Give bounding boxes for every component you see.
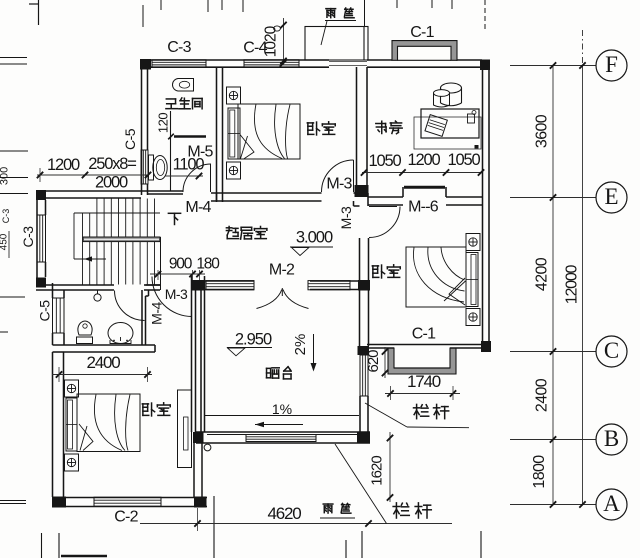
room label 晒台 — [267, 368, 280, 378]
svg-text:C-5: C-5 — [122, 128, 138, 150]
svg-text:B: B — [604, 426, 619, 451]
door M-3 top bedroom — [353, 160, 355, 192]
study desk outer zone — [414, 117, 481, 149]
E wall below study — [368, 196, 403, 198]
stair right edge — [160, 237, 162, 290]
svg-text:M-4: M-4 — [185, 199, 211, 216]
wire stub x397 — [396, 0, 398, 8]
room label 起居室 — [226, 226, 238, 238]
svg-text:180: 180 — [196, 256, 220, 273]
svg-text:1%: 1% — [272, 401, 292, 417]
svg-text:1050: 1050 — [448, 151, 481, 169]
grid line B — [510, 439, 596, 441]
wire stub x222 — [221, 0, 223, 10]
wire stub x364 — [364, 0, 366, 26]
svg-text:1740: 1740 — [407, 372, 441, 391]
column M-2 west — [191, 280, 205, 291]
grid line E — [510, 197, 596, 199]
wire stub top-left vertical — [38, 0, 40, 25]
balcony west wall — [191, 276, 193, 432]
bedroom left wall (lower-left) — [52, 352, 54, 497]
svg-text:A: A — [603, 491, 620, 516]
dim 4620 — [140, 523, 452, 525]
balcony south railing window — [246, 435, 316, 442]
door M-6 leaf — [404, 186, 445, 189]
column balcony SE — [357, 432, 370, 444]
door M-5 — [210, 164, 212, 192]
svg-text:620: 620 — [365, 350, 382, 373]
hall west wall top piece — [146, 284, 161, 286]
headboard — [466, 253, 478, 307]
canopy 雨篷 outline — [305, 27, 368, 61]
svg-text:450: 450 — [0, 233, 10, 250]
svg-text:250x8=: 250x8= — [88, 155, 136, 173]
nightstand 2 — [466, 309, 480, 326]
column bottom-left — [52, 497, 66, 508]
wash basin upper bath — [172, 79, 193, 92]
bottom wall A — [52, 497, 207, 499]
svg-text:1050: 1050 — [369, 152, 402, 170]
dimension 1020 vertical — [283, 18, 285, 62]
wire stub x452 — [451, 0, 453, 9]
bay window C-1 bottom — [388, 348, 456, 374]
column bottom-right (balcony W) — [194, 497, 207, 508]
svg-text:C-4: C-4 — [243, 40, 267, 57]
bed top bedroom: nightstand 1 — [227, 87, 241, 104]
room label 卧室 top — [307, 122, 319, 135]
window C-5 lower — [53, 298, 65, 333]
toilet upper bath — [153, 156, 167, 180]
right exterior wall — [482, 67, 484, 341]
bay window C-1 top — [392, 41, 457, 61]
window left of M-2 — [206, 281, 254, 290]
stair handrail — [83, 237, 160, 242]
svg-text:1620: 1620 — [368, 456, 385, 486]
window C-3 top — [152, 60, 206, 68]
svg-text:C-3: C-3 — [167, 39, 191, 56]
shower head lower bath — [94, 294, 101, 301]
svg-text:C-1: C-1 — [412, 326, 436, 343]
grid bubble E — [596, 182, 627, 213]
top exterior wall band — [141, 59, 329, 61]
dim 2400 lower-left — [52, 374, 152, 376]
drain circle — [204, 444, 211, 451]
svg-text:M-3: M-3 — [338, 206, 354, 229]
grid bubble F — [596, 50, 627, 81]
door M-2 double leaves — [257, 290, 282, 309]
svg-text:3.000: 3.000 — [296, 228, 333, 246]
balcony south band — [196, 431, 370, 433]
railing label 1 leader — [365, 403, 407, 427]
desk — [421, 109, 479, 138]
bath partition 120 — [170, 111, 172, 191]
column stair bottom-left — [36, 278, 46, 288]
dim 900 180 — [150, 273, 205, 275]
wire stub x243 — [242, 0, 244, 12]
room label 卧室 lower-left — [142, 403, 154, 416]
door M-3 right bedroom — [369, 206, 397, 208]
entrance threshold M-1 — [329, 61, 367, 63]
grid line A — [510, 504, 596, 506]
headboard — [66, 398, 77, 451]
svg-text:300: 300 — [0, 167, 10, 185]
wire stub x143 — [142, 5, 144, 27]
stair void border — [73, 213, 75, 259]
wire stub x485 dashed — [484, 0, 486, 30]
left edge stubs — [0, 57, 27, 59]
toilet lower bath — [108, 323, 133, 344]
svg-text:F: F — [605, 52, 618, 77]
grid line C — [510, 351, 596, 353]
svg-text:C-5: C-5 — [37, 300, 53, 322]
bedroom top wall (lower-left) — [53, 344, 156, 346]
chair cylinder — [441, 83, 462, 93]
column bedroom SW — [358, 346, 370, 355]
monitor on desk (tilted) — [425, 115, 447, 137]
svg-text:2.950: 2.950 — [235, 330, 272, 348]
balcony east wall — [359, 290, 361, 346]
balcony east window — [360, 355, 368, 396]
grid bubble C — [596, 336, 627, 367]
window C-2 — [94, 497, 161, 506]
bathroom block left wall — [141, 67, 143, 195]
stair direction arrow — [84, 258, 106, 260]
balcony slope break line — [205, 415, 359, 417]
svg-text:M-5: M-5 — [187, 144, 213, 161]
living/bedroom wall below door — [359, 238, 361, 280]
stair top wall / bath bottom wall — [36, 190, 183, 192]
wire stub x208 — [207, 0, 209, 12]
svg-text:4620: 4620 — [267, 504, 301, 523]
dim 1050 1200 1050 — [362, 172, 482, 174]
svg-text:12000: 12000 — [564, 264, 581, 304]
staircase treads — [96, 199, 98, 285]
dim 1100 (M-5) — [165, 175, 203, 177]
grid bubble A — [596, 489, 627, 520]
pedestal basin lower bath — [78, 321, 92, 335]
room label 书房 — [376, 121, 386, 133]
wall balcony-west lower segment — [193, 443, 195, 497]
nightstand 2 — [227, 162, 241, 179]
phone on desk — [468, 114, 475, 123]
study/bedroom wall x356 — [356, 67, 358, 185]
bed right bedroom — [406, 247, 466, 307]
bed lower-left bedroom: nightstand 1 — [65, 380, 79, 397]
bed top bedroom — [238, 104, 300, 159]
svg-text:4200: 4200 — [534, 257, 551, 291]
nightstand 2 — [65, 454, 79, 471]
grid bubble B — [596, 424, 627, 455]
grid dimension stack right — [552, 66, 554, 505]
dim 1200 / 250x8=2000 — [37, 174, 148, 176]
E wall junction block — [354, 192, 369, 194]
room label 卧室 right — [372, 265, 384, 278]
dim 620 — [384, 347, 386, 378]
svg-text:C-3: C-3 — [1, 209, 11, 224]
lower bathroom walls — [52, 283, 54, 298]
svg-text:1800: 1800 — [531, 455, 548, 489]
wall bathroom/bedroom x216 — [216, 67, 218, 202]
bedroom bottom wall at C — [367, 344, 482, 346]
column study wall base — [355, 185, 369, 197]
dim 1740 — [385, 393, 460, 395]
canopy label 2 — [323, 504, 333, 513]
svg-text:1200: 1200 — [47, 156, 80, 174]
svg-text:M-4: M-4 — [149, 301, 165, 324]
svg-text:E: E — [604, 184, 618, 209]
railing label 2 leader — [335, 444, 387, 524]
svg-text:2400: 2400 — [86, 353, 120, 372]
column top-left of bath — [140, 59, 151, 70]
dim 1620 — [389, 432, 391, 502]
door M-4 lower bath — [115, 291, 145, 321]
stair left wall — [36, 200, 38, 287]
svg-text:M-3: M-3 — [326, 176, 352, 193]
svg-text:2%: 2% — [292, 334, 309, 356]
svg-text:C-3: C-3 — [20, 226, 36, 248]
svg-text:120: 120 — [155, 113, 170, 133]
window C-3 left — [37, 215, 46, 262]
bed lower-left bedroom — [77, 394, 140, 452]
door M-3 hall arc — [152, 277, 192, 317]
small stool — [434, 93, 450, 107]
stair bottom wall — [36, 284, 114, 286]
wire stub x432 — [431, 0, 433, 8]
column top-right corner — [480, 60, 490, 71]
TV cabinet — [178, 390, 192, 468]
window right of M-2 — [308, 281, 350, 290]
column right wall at C — [481, 341, 491, 352]
svg-text:3600: 3600 — [534, 114, 551, 148]
room label 卫生间 — [166, 99, 178, 109]
window C-5 upper — [141, 150, 148, 184]
column stair top-left — [36, 190, 46, 200]
bed right bedroom: nightstand 1 — [466, 234, 480, 251]
headboard — [228, 108, 240, 159]
M-2 south wall of living room — [205, 280, 254, 282]
grid line F — [510, 65, 596, 67]
svg-text:C-1: C-1 — [410, 24, 434, 41]
E wall: bedroom bottom — [211, 192, 322, 194]
svg-text:M-3: M-3 — [165, 286, 188, 302]
window C-4 — [244, 60, 299, 68]
svg-text:M--6: M--6 — [408, 199, 439, 216]
canopy label 雨篷 leader — [325, 20, 356, 22]
svg-text:1200: 1200 — [408, 151, 441, 169]
svg-text:M-2: M-2 — [269, 262, 295, 279]
svg-text:2400: 2400 — [534, 378, 551, 412]
wire stub x161 — [160, 0, 162, 10]
svg-text:C: C — [604, 338, 619, 363]
bottom stubs — [41, 533, 43, 558]
svg-text:C-2: C-2 — [114, 509, 138, 526]
column balcony SW — [193, 432, 204, 443]
下 label — [168, 213, 180, 224]
svg-text:900: 900 — [169, 256, 193, 273]
column M-2 east — [358, 280, 370, 291]
svg-text:2000: 2000 — [95, 173, 128, 191]
